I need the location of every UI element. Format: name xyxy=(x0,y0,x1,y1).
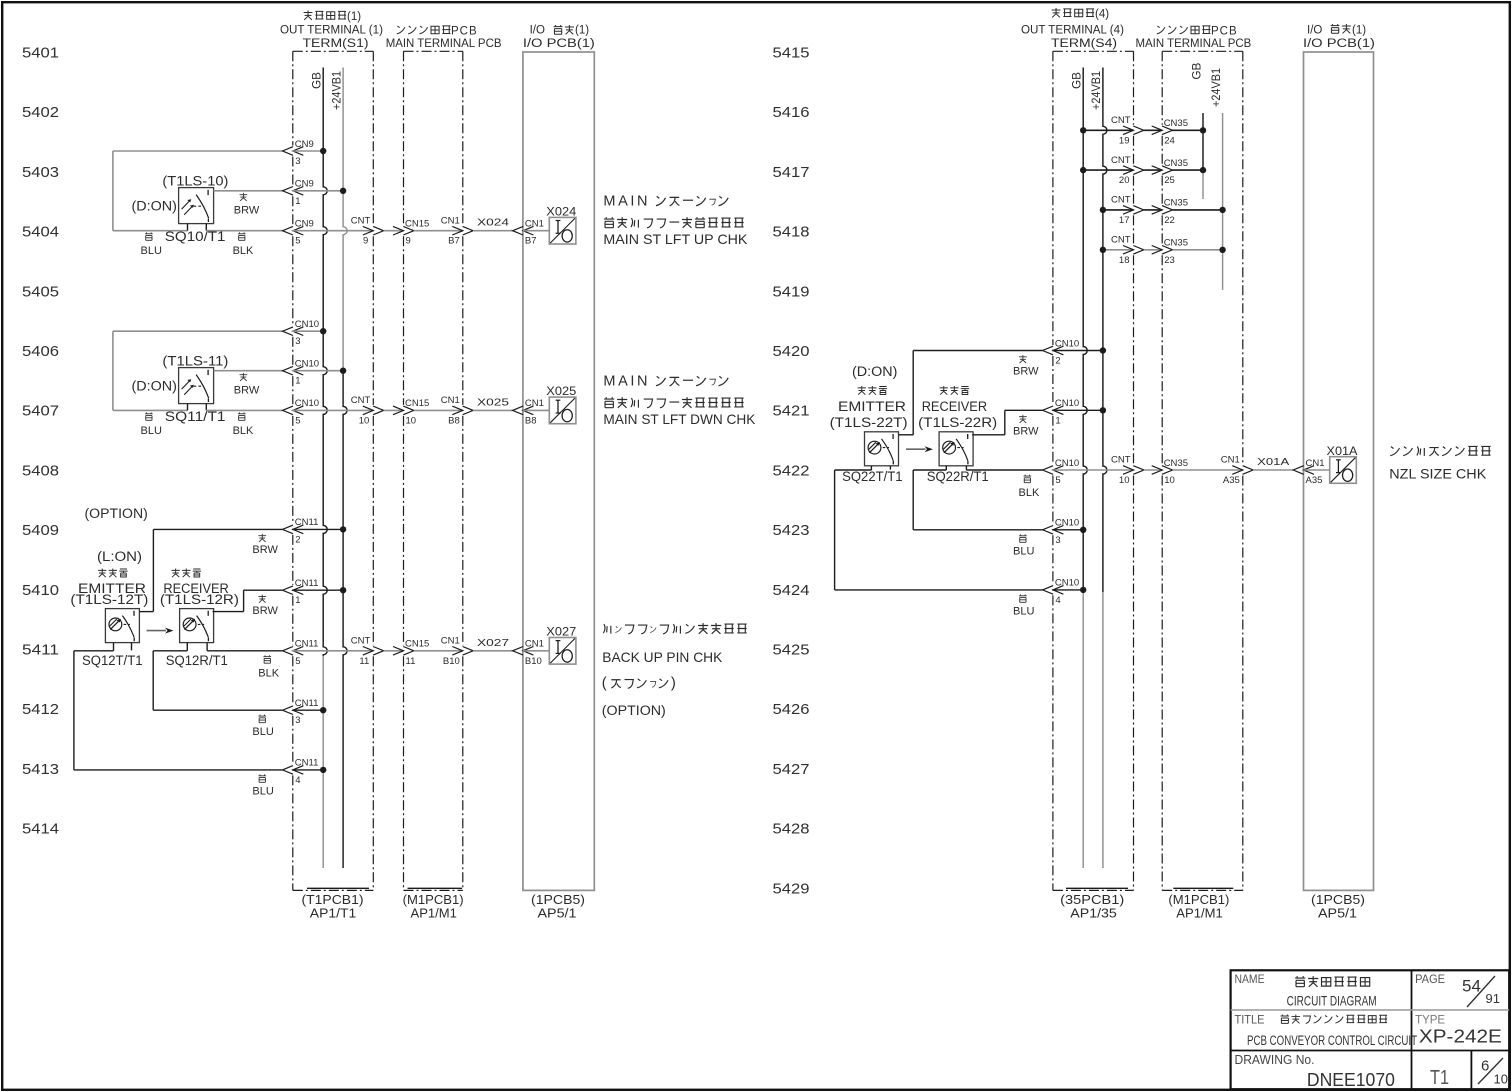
terminal board MAIN TERMINAL PCB outline (M1PCB1) xyxy=(404,51,463,890)
svg-text:2: 2 xyxy=(1055,356,1060,367)
wire CN35 25 to bus node xyxy=(1173,169,1204,171)
svg-text:MAIN ST LFT DWN CHK: MAIN ST LFT DWN CHK xyxy=(603,411,756,427)
junction right CN10-3 GB xyxy=(1080,527,1086,533)
label X01A above symbol xyxy=(1327,444,1358,458)
svg-text:AP1/M1: AP1/M1 xyxy=(1176,907,1222,921)
exit arrow CNT pin 18 xyxy=(1123,246,1144,255)
svg-text:(L:ON): (L:ON) xyxy=(97,549,142,564)
terminal arrow CN10 pin 3 xyxy=(283,327,304,336)
svg-text:1: 1 xyxy=(295,595,300,606)
svg-text:SQ11/T1: SQ11/T1 xyxy=(165,409,226,424)
terminal arrow CN11 pin 1 xyxy=(283,586,304,595)
label right CN10 pin 4 xyxy=(1055,578,1079,606)
svg-text:5412: 5412 xyxy=(22,701,59,718)
wire TERM to MAIN row 5411 xyxy=(384,650,404,652)
wire CN10-3 blue from receiver SQ22R xyxy=(913,466,1042,530)
label right CNT pin 10 xyxy=(1111,455,1131,486)
svg-text:B7: B7 xyxy=(448,236,460,247)
junction right CN10-4 GB xyxy=(1080,587,1086,593)
bus label +24VB1 (right MAIN PCB) xyxy=(1211,68,1223,107)
svg-text:BRW: BRW xyxy=(1013,366,1039,378)
label black BLK CN11-5 xyxy=(258,655,279,679)
wire TERM4 to MAIN4 row 5422 xyxy=(1144,469,1162,471)
svg-text:(D:ON): (D:ON) xyxy=(132,378,177,393)
wire CN11-1 brown to receiver xyxy=(213,590,283,611)
svg-text:CN11: CN11 xyxy=(295,517,319,528)
svg-text:BLK: BLK xyxy=(258,667,279,679)
svg-text:CN11: CN11 xyxy=(295,578,319,589)
bus GB (TERM S4) xyxy=(1083,68,1087,869)
svg-text:5406: 5406 xyxy=(22,343,59,360)
svg-text:CN15: CN15 xyxy=(405,398,429,409)
title CIRCUIT DIAGRAM xyxy=(1287,993,1377,1009)
title japanese PCB CONVEYOR CONTROL CIRCUIT xyxy=(1281,1014,1387,1023)
svg-text:A35: A35 xyxy=(1306,475,1323,486)
wire CN11-1 to +24VB1 node xyxy=(292,589,343,591)
svg-text:5404: 5404 xyxy=(22,224,59,241)
label CNT pin 18 xyxy=(1111,235,1131,266)
wire CNT 19 TERM to MAIN xyxy=(1144,129,1162,131)
svg-text:3: 3 xyxy=(1055,535,1060,546)
wire SQ10 blue loop (BLU to CN9-3) xyxy=(113,151,282,231)
label emitter japanese xyxy=(98,568,128,577)
svg-text:BLK: BLK xyxy=(233,425,254,437)
svg-text:9: 9 xyxy=(406,236,411,247)
svg-text:CN1: CN1 xyxy=(525,219,544,230)
title label PAGE xyxy=(1415,972,1445,986)
entry arrow I/O CN1 B7 xyxy=(513,226,534,235)
wire CNT 17 TERM to MAIN xyxy=(1144,209,1162,211)
svg-text:CN1: CN1 xyxy=(1221,455,1240,466)
label CNT pin 10 xyxy=(351,395,371,426)
svg-text:BRW: BRW xyxy=(234,205,260,217)
svg-text:BLU: BLU xyxy=(252,726,273,738)
photo emitter SQ12T/T1 (T1LS-12T) xyxy=(105,609,139,643)
svg-text:10: 10 xyxy=(359,415,370,426)
svg-text:23: 23 xyxy=(1164,255,1175,266)
header I/O PCB(1) xyxy=(523,38,595,50)
svg-text:(1PCB5): (1PCB5) xyxy=(1311,893,1365,907)
svg-text:B8: B8 xyxy=(448,415,460,426)
svg-text:EMITTER: EMITTER xyxy=(838,399,906,414)
svg-text:(M1PCB1): (M1PCB1) xyxy=(403,893,464,907)
wire TERM to MAIN row 5407 xyxy=(384,409,404,411)
header right MAIN TERMINAL PCB japanese xyxy=(1157,26,1238,38)
title sheet number 6/10 xyxy=(1478,1058,1508,1087)
terminal arrow CN11 pin 4 xyxy=(283,766,304,775)
svg-text:MAIN TERMINAL PCB: MAIN TERMINAL PCB xyxy=(1136,38,1252,50)
wire SQ10 brown (BRW to CN9-1) xyxy=(214,190,283,192)
svg-text:2: 2 xyxy=(295,534,300,545)
label CNT pin 17 xyxy=(1111,195,1131,226)
wire CNT 18 from bus to TERM edge xyxy=(1103,249,1134,251)
label blue BLU wire SQ11 xyxy=(141,412,162,437)
svg-text:19: 19 xyxy=(1119,135,1130,146)
label (OPTION) block header xyxy=(85,506,148,521)
terminal arrow CN9 pin 5 xyxy=(283,226,304,235)
wire CN9-3 to GB node xyxy=(292,150,323,152)
svg-text:5408: 5408 xyxy=(22,462,59,479)
svg-text:(1PCB5): (1PCB5) xyxy=(531,893,585,907)
svg-text:(OPTION): (OPTION) xyxy=(85,506,148,521)
svg-text:XP-242E: XP-242E xyxy=(1419,1027,1502,1047)
wire CN11-2 brown to emitter xyxy=(139,529,282,611)
bus label +24VB1 (TERM S1) xyxy=(331,71,343,110)
svg-text:BLU: BLU xyxy=(141,425,162,437)
svg-text:GB: GB xyxy=(1072,72,1084,89)
svg-text:(T1LS-22R): (T1LS-22R) xyxy=(918,415,997,430)
entry arrow CN15 pin 9 xyxy=(393,226,414,235)
svg-text:5418: 5418 xyxy=(773,224,810,241)
entry arrow CN35 pin 10 xyxy=(1152,466,1173,475)
svg-text:10: 10 xyxy=(1494,1072,1508,1087)
wire X027 net xyxy=(473,650,512,652)
label (35PCB1) AP1/35 xyxy=(1060,888,1128,920)
svg-text:CN35: CN35 xyxy=(1164,458,1188,469)
svg-text:(T1LS-10): (T1LS-10) xyxy=(162,173,228,188)
wire right CN10-3 to GB node xyxy=(1052,529,1083,531)
svg-text:CN15: CN15 xyxy=(405,219,429,230)
wire CN35 23 to bus node xyxy=(1173,249,1223,251)
wire I/O edge to X027 symbol xyxy=(523,650,549,652)
bus +24VB1 (right MAIN PCB) xyxy=(1222,113,1224,290)
svg-text:AP5/1: AP5/1 xyxy=(538,907,577,921)
terminal arrow CN10 pin 1 xyxy=(283,366,304,375)
svg-text:CNT: CNT xyxy=(1111,195,1131,206)
junction right CN10-1 +24VB1 xyxy=(1100,407,1106,413)
label (T1LS-12T) xyxy=(70,592,148,607)
svg-text:6: 6 xyxy=(1481,1058,1489,1075)
exit arrow CNT pin 9 xyxy=(363,226,384,235)
svg-text:CN10: CN10 xyxy=(1055,398,1079,409)
net label X01A xyxy=(1257,456,1289,468)
label blue BLU CN10-4 xyxy=(1013,594,1034,617)
label (D:ON) SQ10 xyxy=(132,198,177,213)
label RECEIVER xyxy=(163,581,229,596)
bus +24VB1 (TERM S4) xyxy=(1103,68,1107,869)
svg-text:5414: 5414 xyxy=(22,821,59,838)
net label X025 xyxy=(477,396,509,408)
label blue BLU CN10-3 xyxy=(1013,534,1034,557)
svg-text:X024: X024 xyxy=(546,205,576,219)
svg-text:3: 3 xyxy=(295,156,300,167)
entry arrow CN35 pin 24 xyxy=(1152,126,1173,135)
wire CN35 22 to bus node xyxy=(1173,209,1223,211)
bus +24VB1 (TERM S1) xyxy=(343,68,347,869)
label RECEIVER right xyxy=(922,399,988,414)
svg-text:AP5/1: AP5/1 xyxy=(1318,907,1357,921)
header right I/O PCB(1) japanese xyxy=(1307,24,1366,36)
junction CN11-2 +24VB1 xyxy=(340,526,346,532)
svg-text:X025: X025 xyxy=(546,384,576,398)
exit arrow CNT pin 11 xyxy=(363,647,384,656)
label X025 above symbol xyxy=(546,384,576,398)
label CN35 pin 24 xyxy=(1164,118,1188,146)
svg-text:B8: B8 xyxy=(525,415,537,426)
svg-text:CN9: CN9 xyxy=(295,179,314,190)
bus label GB (TERM S1) xyxy=(312,72,324,89)
svg-text:CN35: CN35 xyxy=(1164,118,1188,129)
description MAIN ST LFT DWN CHK japanese xyxy=(603,374,743,408)
wire SQ11 black (BLK to CN10-5) xyxy=(206,404,282,411)
svg-text:MAIN ST LFT UP CHK: MAIN ST LFT UP CHK xyxy=(603,231,748,247)
svg-text:I/O PCB(1): I/O PCB(1) xyxy=(523,38,595,50)
header right MAIN TERMINAL PCB xyxy=(1136,38,1252,50)
svg-text:BLK: BLK xyxy=(233,245,254,257)
label CN11 pin 3 xyxy=(295,698,319,726)
svg-text:18: 18 xyxy=(1119,255,1130,266)
label CN9 pin 1 xyxy=(295,179,314,207)
bus label +24VB1 (TERM S4) xyxy=(1091,71,1103,110)
wire right CN10-5 across buses to CNT 10 xyxy=(1052,469,1133,471)
svg-text:+24VB1: +24VB1 xyxy=(1211,68,1223,107)
label CN9 pin 5 xyxy=(295,219,314,247)
label SQ10/T1 xyxy=(165,229,226,244)
svg-text:MAIN: MAIN xyxy=(603,374,650,390)
wire CN10-1 to +24VB1 node xyxy=(292,370,343,372)
svg-text:5416: 5416 xyxy=(773,104,810,121)
stub emitter unused contact xyxy=(131,643,133,651)
svg-text:4: 4 xyxy=(295,775,300,786)
wire inside MAIN row 5407 xyxy=(414,409,463,411)
svg-text:DRAWING No.: DRAWING No. xyxy=(1235,1053,1315,1067)
terminal board right MAIN TERMINAL PCB outline (M1PCB1) xyxy=(1162,51,1243,890)
svg-text:CN10: CN10 xyxy=(295,359,319,370)
wire X01A net xyxy=(1253,469,1293,471)
label EMITTER right xyxy=(838,399,906,414)
svg-text:MAIN TERMINAL PCB: MAIN TERMINAL PCB xyxy=(386,38,502,50)
label receiver japanese xyxy=(171,568,201,577)
wire SQ11 blue loop (BLU to CN10-3) xyxy=(113,331,282,410)
svg-text:(T1LS-12T): (T1LS-12T) xyxy=(70,592,148,607)
junction right CN10-2 +24VB1 xyxy=(1100,347,1106,353)
wire X024 net xyxy=(473,230,512,232)
header MAIN TERMINAL PCB xyxy=(386,38,502,50)
label SQ11/T1 xyxy=(165,409,226,424)
label black BLK CN10-5 xyxy=(1019,475,1040,499)
label blue BLU CN11-3 xyxy=(252,715,273,738)
description BACK UP PIN CHK japanese xyxy=(603,623,746,634)
label right CN10 pin 2 xyxy=(1055,338,1079,366)
description MAIN ST LFT UP CHK xyxy=(603,231,748,247)
svg-text:BRW: BRW xyxy=(252,544,278,556)
svg-text:AP1/M1: AP1/M1 xyxy=(411,907,457,921)
label CN35 pin 22 xyxy=(1164,198,1188,226)
exit arrow CN1 pin B10 xyxy=(452,647,473,656)
title drawing number DNEE1070 xyxy=(1307,1070,1395,1090)
svg-text:25: 25 xyxy=(1164,175,1175,186)
entry arrow I/O CN1 B10 xyxy=(513,647,534,656)
svg-text:20: 20 xyxy=(1119,175,1130,186)
header OUT TERMINAL (4) xyxy=(1021,25,1124,37)
wire SQ10 black (BLK to CN9-5) xyxy=(206,224,282,231)
wire TERM to MAIN row 5404 xyxy=(384,230,404,232)
wire I/O edge to X024 symbol xyxy=(523,230,549,232)
svg-text:DNEE1070: DNEE1070 xyxy=(1307,1070,1395,1090)
svg-text:A35: A35 xyxy=(1223,475,1240,486)
svg-text:I/O: I/O xyxy=(530,25,545,37)
svg-text:SQ12T/T1: SQ12T/T1 xyxy=(82,653,143,668)
svg-text:9: 9 xyxy=(363,236,368,247)
svg-text:(T1PCB1): (T1PCB1) xyxy=(302,893,364,907)
wire inside MAIN row 5411 xyxy=(414,650,463,652)
label (L:ON) xyxy=(97,549,142,564)
svg-text:91: 91 xyxy=(1486,991,1500,1006)
label blue BLU CN11-4 xyxy=(252,774,273,797)
svg-text:24: 24 xyxy=(1164,135,1175,146)
label (T1LS-22R) xyxy=(918,415,997,430)
svg-text:CN1: CN1 xyxy=(441,636,460,647)
header I/O PCB(1) japanese xyxy=(530,25,590,37)
svg-text:B10: B10 xyxy=(525,656,542,667)
header TERM(S1) xyxy=(303,38,369,50)
svg-text:5428: 5428 xyxy=(773,821,810,838)
light beam arrow emitter to receiver right xyxy=(906,446,933,452)
svg-text:CN35: CN35 xyxy=(1164,238,1188,249)
bus label GB (TERM S4) xyxy=(1072,72,1084,89)
junction CN9-1 +24VB1 xyxy=(340,188,346,194)
label CNT pin 19 xyxy=(1111,115,1131,146)
terminal arrow right CN10 pin 2 xyxy=(1043,346,1064,355)
svg-text:+24VB1: +24VB1 xyxy=(1091,71,1103,110)
wire CN10-1 brown to receiver SQ22R xyxy=(972,410,1043,435)
svg-text:CNT: CNT xyxy=(1111,235,1131,246)
svg-text:(35PCB1): (35PCB1) xyxy=(1060,893,1124,907)
svg-text:5420: 5420 xyxy=(773,343,810,360)
svg-text:17: 17 xyxy=(1119,215,1130,226)
svg-text:CN11: CN11 xyxy=(295,758,319,769)
svg-text:B7: B7 xyxy=(525,236,537,247)
terminal arrow CN11 pin 2 xyxy=(283,525,304,534)
label right CN10 pin 5 xyxy=(1055,458,1079,486)
label CN11 pin 5 xyxy=(295,639,319,667)
terminal arrow CN9 pin 3 xyxy=(283,147,304,156)
svg-text:5417: 5417 xyxy=(773,164,810,181)
label (T1LS-12R) xyxy=(160,592,239,607)
svg-text:(T1LS-12R): (T1LS-12R) xyxy=(160,592,239,607)
label black BLK wire SQ11 xyxy=(233,412,254,437)
svg-text:CN1: CN1 xyxy=(525,639,544,650)
junction CNT 17 bus xyxy=(1100,207,1106,213)
label (T1LS-11) xyxy=(162,353,228,368)
svg-text:5426: 5426 xyxy=(773,701,810,718)
description MAIN ST LFT UP CHK japanese xyxy=(603,194,743,228)
label CN10 pin 5 xyxy=(295,398,319,426)
label SQ12R/T1 xyxy=(166,653,228,668)
label right CN10 pin 1 xyxy=(1055,398,1079,426)
svg-text:5423: 5423 xyxy=(773,522,810,539)
entry arrow CN35 pin 22 xyxy=(1152,206,1173,215)
svg-text:GB: GB xyxy=(1191,62,1203,79)
svg-text:OUT TERMINAL (1): OUT TERMINAL (1) xyxy=(280,25,383,37)
svg-text:X027: X027 xyxy=(477,637,509,649)
svg-text:TYPE: TYPE xyxy=(1415,1012,1445,1026)
net label X024 xyxy=(477,217,509,229)
svg-text:3: 3 xyxy=(295,336,300,347)
exit arrow right CNT pin 10 xyxy=(1123,466,1144,475)
svg-text:TITLE: TITLE xyxy=(1235,1012,1265,1026)
svg-text:5402: 5402 xyxy=(22,104,59,121)
title label TITLE xyxy=(1235,1012,1265,1026)
label (D:ON) SQ22 xyxy=(852,364,897,379)
junction CNT 18 bus xyxy=(1100,247,1106,253)
terminal arrow right CN10 pin 5 xyxy=(1043,466,1064,475)
label CN1 pin B7 (I/O) xyxy=(525,219,544,247)
label brown BRW CN11-1 xyxy=(252,595,278,617)
description BACK UP PIN CHK xyxy=(602,649,723,665)
label (T1PCB1) AP1/T1 xyxy=(302,888,370,920)
svg-text:5425: 5425 xyxy=(773,642,810,659)
junction CN10-1 +24VB1 xyxy=(340,368,346,374)
terminal arrow right CN10 pin 3 xyxy=(1043,526,1064,535)
label X024 above symbol xyxy=(546,205,576,219)
title PCB CONVEYOR CONTROL CIRCUIT xyxy=(1247,1033,1417,1048)
label CN10 pin 3 xyxy=(295,319,319,347)
I/O board right I/O PCB(1) outline (1PCB5) xyxy=(1304,52,1374,890)
junction CN35 25 bus xyxy=(1200,167,1206,173)
label CN11 pin 1 xyxy=(295,578,319,606)
svg-text:5421: 5421 xyxy=(773,403,810,420)
bus GB (TERM S1) xyxy=(323,68,327,869)
bus label GB (right MAIN PCB) xyxy=(1191,62,1203,79)
junction CN35 24 bus xyxy=(1200,127,1206,133)
wire CNT 19 from bus to TERM edge xyxy=(1083,129,1133,131)
title label NAME xyxy=(1235,972,1265,986)
title sheet T1 xyxy=(1430,1067,1449,1089)
svg-text:AP1/35: AP1/35 xyxy=(1070,907,1117,921)
label brown BRW wire SQ10 xyxy=(234,193,260,217)
wire CN10-2 brown to emitter SQ22T xyxy=(899,351,1043,435)
svg-text:10: 10 xyxy=(406,415,417,426)
label CN1 pin B10 (MAIN) xyxy=(441,636,460,667)
svg-text:(T1LS-11): (T1LS-11) xyxy=(162,353,228,368)
entry arrow CN15 pin 10 xyxy=(393,406,414,415)
wire CNT 18 TERM to MAIN xyxy=(1144,249,1162,251)
I/O point X025 symbol xyxy=(549,397,576,424)
label right CN10 pin 3 xyxy=(1055,518,1079,546)
svg-text:4: 4 xyxy=(1055,595,1060,606)
svg-text:5415: 5415 xyxy=(773,45,810,62)
svg-text:1: 1 xyxy=(1055,415,1060,426)
I/O point X01A symbol xyxy=(1330,457,1357,484)
svg-text:5409: 5409 xyxy=(22,522,59,539)
svg-text:5403: 5403 xyxy=(22,164,59,181)
svg-text:22: 22 xyxy=(1164,215,1175,226)
svg-text:5407: 5407 xyxy=(22,403,59,420)
svg-text:TERM(S1): TERM(S1) xyxy=(303,38,369,50)
svg-text:CN10: CN10 xyxy=(1055,578,1079,589)
terminal arrow right CN10 pin 1 xyxy=(1043,406,1064,415)
header OUT TERMINAL(4) japanese xyxy=(1052,8,1110,20)
junction CNT 19 bus xyxy=(1080,127,1086,133)
label CN35 pin 25 xyxy=(1164,158,1188,186)
svg-text:AP1/T1: AP1/T1 xyxy=(310,907,356,921)
svg-text:(D:ON): (D:ON) xyxy=(132,198,177,213)
label X027 above symbol xyxy=(546,625,576,639)
label CNT pin 11 xyxy=(351,636,371,667)
svg-text:OUT TERMINAL (4): OUT TERMINAL (4) xyxy=(1021,25,1124,37)
wire CN11-2 to +24VB1 node xyxy=(292,528,343,530)
wire SQ11 brown (BRW to CN10-1) xyxy=(214,370,283,372)
svg-text:SQ22R/T1: SQ22R/T1 xyxy=(927,469,989,484)
wire CN10-5 across buses to CNT 10 xyxy=(292,409,373,411)
svg-text:CN11: CN11 xyxy=(295,698,319,709)
label CN1 pin A35 (I/O) xyxy=(1306,458,1325,486)
svg-text:NAME: NAME xyxy=(1235,972,1265,986)
svg-text:PCB: PCB xyxy=(1211,26,1238,38)
label CN1 pin B7 (MAIN) xyxy=(441,215,460,246)
terminal arrow CN11 pin 3 xyxy=(283,706,304,715)
